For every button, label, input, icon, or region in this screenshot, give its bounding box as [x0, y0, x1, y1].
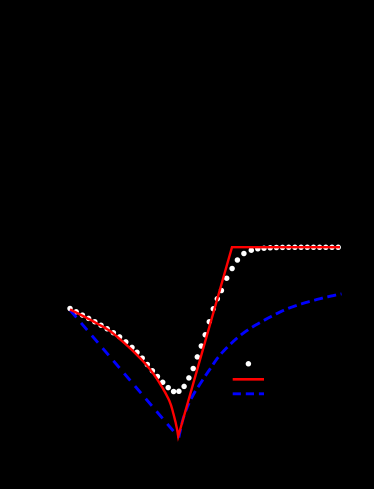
legend blue dashed sample [233, 392, 264, 395]
red solid curve [70, 247, 340, 436]
legend red line sample [233, 378, 264, 381]
legend marker dot [246, 361, 252, 367]
blue dashed curve right branch [179, 294, 342, 438]
blue dashed curve left branch [70, 310, 179, 437]
data dots series [67, 245, 341, 395]
